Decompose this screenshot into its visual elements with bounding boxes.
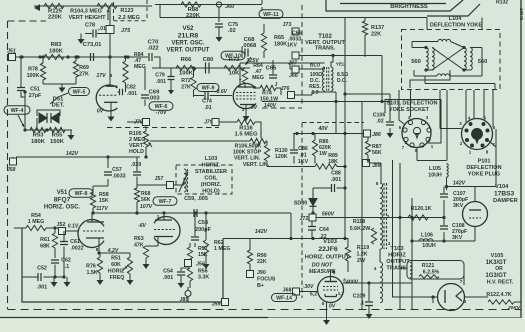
pot wiper arrow R104 — [107, 9, 110, 20]
label T103 — [386, 246, 410, 272]
svg-text:R121: R121 — [422, 263, 435, 269]
terminal J72 — [300, 212, 335, 223]
ground under C78 — [78, 34, 85, 45]
terminal J52 — [57, 222, 79, 235]
svg-text:HOLD: HOLD — [129, 149, 144, 155]
label 0V pentode — [251, 105, 258, 111]
svg-text:10UH: 10UH — [422, 243, 436, 249]
oval WF-11 — [259, 10, 283, 19]
svg-text:7: 7 — [239, 78, 242, 83]
dashes around R123 — [114, 0, 148, 21]
label 20KV — [507, 305, 521, 311]
svg-text:R83: R83 — [51, 42, 62, 48]
dashed box horiz section — [302, 123, 364, 299]
svg-text:C74: C74 — [202, 99, 212, 105]
svg-text:-8.6V: -8.6V — [215, 89, 228, 95]
T102 bottom wire — [312, 91, 336, 134]
oval WF-6 — [149, 102, 173, 111]
diode loop — [37, 110, 60, 116]
label 107V — [140, 204, 153, 210]
svg-text:22K: 22K — [257, 259, 267, 265]
resistor R122 — [465, 292, 522, 304]
svg-text:J73: J73 — [283, 22, 292, 28]
svg-text:15K: 15K — [99, 198, 109, 204]
svg-text:VERT HEIGHT: VERT HEIGHT — [69, 15, 107, 21]
svg-text:8: 8 — [96, 247, 99, 252]
svg-text:17BS3: 17BS3 — [494, 191, 514, 198]
brightness drop wire — [481, 18, 483, 30]
svg-text:560V: 560V — [322, 212, 335, 218]
arrowhead left of R125 — [34, 4, 40, 11]
svg-text:60K: 60K — [111, 262, 121, 268]
svg-text:56K: 56K — [372, 150, 382, 156]
tube V104 damper — [463, 202, 488, 227]
label R84 .47 MEG — [134, 52, 146, 70]
svg-text:V52: V52 — [183, 25, 195, 32]
label D51 DET — [52, 97, 65, 109]
svg-text:OR: OR — [495, 266, 503, 272]
terminal J58 — [7, 157, 17, 173]
svg-text:J86: J86 — [372, 132, 381, 138]
resistor R118 — [350, 219, 377, 244]
tube V103 internals — [323, 270, 338, 297]
resistor R90 — [247, 238, 266, 265]
svg-text:4: 4 — [374, 266, 377, 271]
wire right rail top — [270, 18, 427, 30]
socket wires — [399, 90, 411, 124]
yoke junction dots — [424, 46, 470, 72]
border line bottom — [0, 317, 525, 319]
oval WF-5 — [69, 88, 90, 96]
pot R51 — [99, 253, 134, 285]
capacitor C86 — [290, 134, 309, 166]
svg-text:R119: R119 — [357, 245, 369, 251]
svg-text:HOLD): HOLD) — [202, 189, 220, 195]
svg-text:WF-14: WF-14 — [276, 296, 292, 302]
svg-text:120K: 120K — [275, 154, 288, 160]
capacitor C57 — [93, 155, 126, 186]
terminal J75 — [106, 26, 131, 35]
svg-text:YOKE SOCKET: YOKE SOCKET — [389, 107, 430, 113]
terminal J90 — [247, 264, 276, 289]
svg-text:5: 5 — [322, 301, 325, 306]
dashed link right — [262, 107, 302, 109]
svg-text:C64: C64 — [319, 227, 329, 233]
terminal J79 left — [127, 119, 150, 126]
label R13 corner — [496, 0, 508, 6]
diode SD89 — [294, 192, 317, 214]
svg-text:20KV: 20KV — [507, 305, 521, 311]
wire 57 row — [16, 56, 148, 58]
svg-text:1: 1 — [157, 214, 160, 219]
resistor R55 — [49, 127, 65, 132]
svg-text:.0068: .0068 — [242, 43, 257, 49]
svg-text:C109: C109 — [353, 294, 366, 300]
resistor R62 — [203, 213, 231, 269]
paper edge strip right — [522, 0, 525, 318]
wire socket drop — [417, 148, 447, 161]
svg-text:.01: .01 — [299, 153, 306, 159]
resistor R58 — [90, 186, 108, 208]
svg-text:5.6K,2W: 5.6K,2W — [350, 226, 371, 232]
svg-text:10K: 10K — [229, 71, 240, 77]
resistor R78 — [40, 57, 45, 84]
resistor R74 — [253, 85, 281, 102]
svg-text:DET.: DET. — [52, 103, 65, 109]
wire damper top — [447, 187, 475, 193]
svg-text:HORIZ: HORIZ — [388, 253, 406, 259]
vertical wire x400 — [399, 163, 401, 310]
svg-text:3KV: 3KV — [453, 203, 464, 209]
ground under C75 — [216, 27, 223, 42]
solid box bottom left — [22, 228, 221, 302]
wire J75 down — [109, 34, 111, 57]
svg-text:.1: .1 — [65, 264, 69, 270]
svg-text:C54: C54 — [163, 269, 173, 275]
svg-text:R61: R61 — [40, 237, 50, 243]
label 400V — [343, 278, 358, 286]
svg-text:R118: R118 — [353, 219, 365, 225]
transformer T103 secondary — [380, 249, 383, 303]
terminal J73 — [283, 22, 299, 35]
svg-text:-70V: -70V — [155, 110, 167, 116]
svg-text:27pF: 27pF — [29, 93, 42, 99]
label do not measure — [309, 263, 336, 276]
svg-text:56K: 56K — [141, 197, 151, 203]
svg-text:H.V. RECT.: H.V. RECT. — [487, 280, 514, 286]
svg-text:HORIZ. OSC.: HORIZ. OSC. — [44, 205, 81, 211]
svg-text:L106: L106 — [421, 233, 433, 239]
svg-text:VERT. LIN.: VERT. LIN. — [243, 162, 270, 168]
terminal J85 — [180, 287, 191, 303]
svg-text:21LR8: 21LR8 — [178, 33, 199, 40]
label C68 — [242, 37, 257, 58]
capacitor C61 — [60, 231, 84, 277]
terminal J56 — [185, 260, 205, 268]
svg-text:1KV: 1KV — [298, 159, 309, 165]
svg-text:.02: .02 — [376, 119, 383, 125]
svg-text:.01: .01 — [204, 105, 211, 111]
svg-text:SD89: SD89 — [294, 201, 307, 207]
label -6V — [138, 223, 146, 229]
wire 241 row — [410, 239, 475, 242]
svg-text:.001: .001 — [156, 79, 166, 85]
svg-text:100K: 100K — [179, 71, 194, 77]
svg-text:YOKE PLUG: YOKE PLUG — [468, 172, 500, 178]
svg-text:.0033: .0033 — [112, 174, 125, 180]
wire vert lin row — [150, 140, 250, 142]
label V104 damper — [493, 184, 519, 204]
socket box — [385, 100, 441, 144]
capacitor C65 — [266, 60, 278, 88]
pointer WF-5 to D51 — [50, 93, 68, 104]
svg-text:J75: J75 — [121, 28, 131, 34]
label L103 — [202, 156, 221, 169]
label 4.2V — [107, 248, 119, 254]
terminal J79 right — [204, 119, 219, 126]
tube V52b grids — [236, 93, 256, 100]
wire T102 top — [299, 56, 382, 102]
label 0V V103 — [322, 301, 336, 310]
svg-text:-6V: -6V — [138, 223, 146, 229]
tube V52 triode — [96, 85, 117, 111]
wire V103 plate — [343, 281, 412, 284]
svg-text:L104: L104 — [449, 16, 462, 22]
vertical wire x392 — [392, 160, 394, 297]
capacitor C107 — [440, 187, 469, 218]
wire R78 R69 bottom — [43, 84, 76, 93]
svg-text:47K: 47K — [134, 243, 144, 249]
coil L103 — [179, 169, 188, 192]
svg-text:HORIZ. OUTPUT: HORIZ. OUTPUT — [305, 255, 350, 261]
oval WF-4 — [4, 106, 30, 115]
svg-text:J85: J85 — [180, 297, 189, 303]
svg-text:.003: .003 — [148, 96, 160, 102]
svg-text:DEFLECTION: DEFLECTION — [466, 165, 501, 171]
plug pins — [465, 122, 490, 148]
resistor R84 — [123, 55, 128, 83]
svg-text:220K: 220K — [186, 13, 201, 19]
capacitor C108 — [440, 218, 468, 242]
svg-text:R72: R72 — [181, 78, 191, 84]
svg-text:1.5 MEG: 1.5 MEG — [235, 132, 258, 138]
svg-text:R65: R65 — [274, 35, 284, 41]
svg-text:S101, DEFLECTION: S101, DEFLECTION — [386, 101, 437, 107]
label 117V — [96, 206, 108, 212]
resistor R68 — [134, 188, 150, 215]
socket pins — [403, 120, 431, 147]
svg-text:.001: .001 — [331, 177, 341, 183]
capacitor C74 — [194, 91, 233, 111]
svg-text:WF-5: WF-5 — [73, 90, 86, 96]
capacitor C52 — [22, 266, 66, 291]
tube V51a — [78, 220, 104, 248]
svg-text:142V: 142V — [453, 181, 466, 187]
arrow WF-4 — [18, 115, 24, 127]
svg-text:1KV: 1KV — [287, 43, 297, 49]
wire 40V rail — [293, 132, 364, 135]
svg-text:V105: V105 — [491, 253, 504, 259]
svg-text:C52: C52 — [37, 266, 47, 272]
capacitor C56 — [133, 157, 141, 188]
svg-text:R73: R73 — [229, 57, 240, 63]
socket pin numbers — [399, 115, 434, 153]
svg-text:C61: C61 — [70, 239, 80, 245]
svg-text:-30V: -30V — [303, 284, 314, 290]
tube V104 internals — [469, 192, 481, 241]
svg-text:3KV: 3KV — [452, 235, 463, 241]
plug P101 circle — [462, 119, 493, 150]
svg-text:D.C.: D.C. — [337, 78, 348, 84]
svg-text:2: 2 — [464, 299, 467, 304]
plug wire right — [475, 129, 496, 187]
svg-text:STABILIZER: STABILIZER — [195, 169, 227, 175]
label R105 vert hold — [129, 131, 145, 155]
wire R58 down — [92, 208, 94, 213]
wire top T103 — [370, 163, 382, 183]
ground V103 — [323, 302, 330, 326]
svg-text:1W: 1W — [319, 151, 327, 157]
svg-text:107V: 107V — [140, 204, 153, 210]
svg-text:10UH: 10UH — [428, 173, 442, 179]
wire 101 row — [262, 92, 390, 103]
svg-text:R78: R78 — [28, 67, 38, 73]
dots D51 row — [23, 90, 48, 131]
diode D51a — [39, 113, 47, 123]
capacitor C59 — [184, 196, 208, 217]
label V103 — [305, 239, 350, 261]
label R106 — [233, 144, 262, 162]
capacitor C58 — [191, 213, 212, 247]
tube V52a cathode — [104, 102, 118, 113]
label T102 — [305, 34, 345, 52]
capacitor C109 — [353, 283, 373, 319]
svg-text:TRANS.: TRANS. — [315, 46, 336, 52]
yoke inner wires — [410, 70, 495, 90]
svg-text:1,7: 1,7 — [338, 291, 345, 296]
label BRIGHTNESS — [390, 4, 428, 10]
svg-text:R120,1K: R120,1K — [411, 206, 432, 212]
svg-text:200pF: 200pF — [195, 227, 212, 233]
svg-text:220K: 220K — [48, 15, 63, 21]
svg-text:DAMPER: DAMPER — [493, 198, 519, 204]
tube V105 — [438, 284, 465, 311]
brightness box — [326, 0, 480, 16]
capacitor C106 — [345, 94, 394, 138]
svg-text:HORIZ.: HORIZ. — [202, 163, 221, 169]
svg-text:.0022: .0022 — [70, 246, 83, 252]
wire x110 down — [41, 55, 111, 58]
svg-text:1 MEG: 1 MEG — [28, 219, 44, 225]
label R64 vert osc — [242, 63, 263, 88]
svg-text:R51: R51 — [111, 256, 121, 262]
capacitor C78 — [85, 23, 110, 38]
resistor R69 — [73, 57, 78, 84]
yoke top coil — [412, 39, 464, 47]
svg-text:2: 2 — [387, 214, 390, 219]
tube V52a plate — [106, 57, 118, 86]
terminal J87 — [288, 52, 299, 67]
label 0.1V — [68, 224, 79, 230]
socket key — [413, 127, 420, 138]
tube V51a grid — [83, 230, 104, 232]
svg-text:R104,3 MEG: R104,3 MEG — [70, 9, 102, 15]
label -8.6V — [215, 89, 228, 95]
svg-text:.022: .022 — [147, 46, 159, 52]
resistor R72 — [181, 66, 196, 97]
svg-text:BRIGHTNESS: BRIGHTNESS — [390, 4, 428, 10]
tube V52b plate — [238, 63, 325, 87]
resistor R65 — [261, 24, 287, 58]
label R125 220K — [48, 9, 63, 21]
transformer T103 primary — [380, 183, 387, 249]
svg-text:DEFLECTION YOKE: DEFLECTION YOKE — [430, 23, 482, 29]
label V52 tube type — [167, 25, 210, 54]
tube V52 pentode — [233, 83, 256, 108]
svg-text:R76: R76 — [86, 264, 96, 270]
terminal J68 — [283, 288, 318, 296]
svg-text:.001: .001 — [37, 285, 47, 291]
T103 pin numbers — [374, 181, 391, 271]
resistor R76 — [86, 253, 103, 285]
dashed box L103 — [176, 165, 232, 194]
resistor R130 — [264, 141, 294, 167]
label S101 — [386, 101, 437, 114]
resistor R83 — [44, 54, 64, 59]
resistor R89 — [294, 164, 347, 169]
svg-text:C73,01: C73,01 — [83, 42, 103, 48]
label -30V — [303, 284, 314, 290]
T102 yel wire — [331, 54, 335, 67]
svg-text:R132: R132 — [496, 0, 508, 6]
capacitor C54 — [163, 268, 190, 288]
T102 blu wire — [290, 63, 325, 69]
label 142V mid — [255, 229, 268, 235]
capacitor C80 — [203, 57, 214, 74]
resistor R87 — [365, 137, 381, 163]
wire top rail — [34, 5, 152, 7]
svg-text:C59, .005: C59, .005 — [184, 196, 208, 202]
dashed line x262 top — [261, 0, 263, 14]
svg-text:J60: J60 — [225, 4, 234, 10]
chassis dashed border bottom — [8, 309, 522, 311]
svg-text:VERT. OSC.: VERT. OSC. — [172, 41, 205, 47]
label R123 2.2MEG — [118, 8, 140, 21]
svg-text:FREQ: FREQ — [110, 275, 125, 281]
svg-text:6,2: 6,2 — [310, 292, 317, 298]
svg-text:WF-8: WF-8 — [75, 191, 88, 197]
svg-text:P101: P101 — [478, 159, 491, 165]
label V105 type — [485, 253, 513, 286]
svg-text:(HORIZ.: (HORIZ. — [201, 182, 222, 188]
svg-text:J66: J66 — [289, 73, 298, 79]
terminal J76 — [281, 86, 312, 99]
dashed line x297 — [301, 5, 303, 104]
resistor R61 — [40, 226, 57, 258]
label L104 — [430, 16, 482, 29]
label R55 150K — [50, 133, 65, 146]
oval WF-8 — [69, 189, 93, 198]
svg-text:V104: V104 — [495, 184, 509, 190]
svg-text:C51: C51 — [30, 87, 40, 93]
svg-text:5: 5 — [376, 181, 379, 186]
resistor R125 — [44, 3, 64, 8]
svg-text:1 MEG: 1 MEG — [214, 246, 230, 252]
capacitor C51 — [17, 55, 42, 99]
terminal J86 — [345, 130, 381, 138]
socket S101 circle — [402, 119, 431, 148]
svg-text:1.5K: 1.5K — [86, 270, 97, 276]
capacitor C69 — [141, 90, 160, 107]
junction dots 57 — [20, 55, 129, 58]
wire 213 row — [93, 211, 291, 238]
svg-text:0V: 0V — [97, 109, 104, 115]
wire 142V rail — [16, 156, 140, 158]
tube V52a grid — [99, 94, 118, 96]
svg-text:.02: .02 — [228, 28, 236, 34]
svg-text:WF-4: WF-4 — [11, 108, 24, 114]
capacitor C64 — [308, 221, 329, 240]
svg-text:117V: 117V — [96, 206, 108, 212]
svg-text:C57: C57 — [112, 167, 122, 173]
resistor R104 vert height pot — [97, 3, 117, 8]
svg-text:B+: B+ — [257, 283, 264, 289]
svg-text:C82: C82 — [126, 85, 136, 91]
svg-text:J90: J90 — [257, 270, 266, 276]
resistor R137 — [362, 18, 384, 58]
yoke cross wires — [412, 48, 482, 71]
yoke left coil pair — [411, 48, 434, 71]
